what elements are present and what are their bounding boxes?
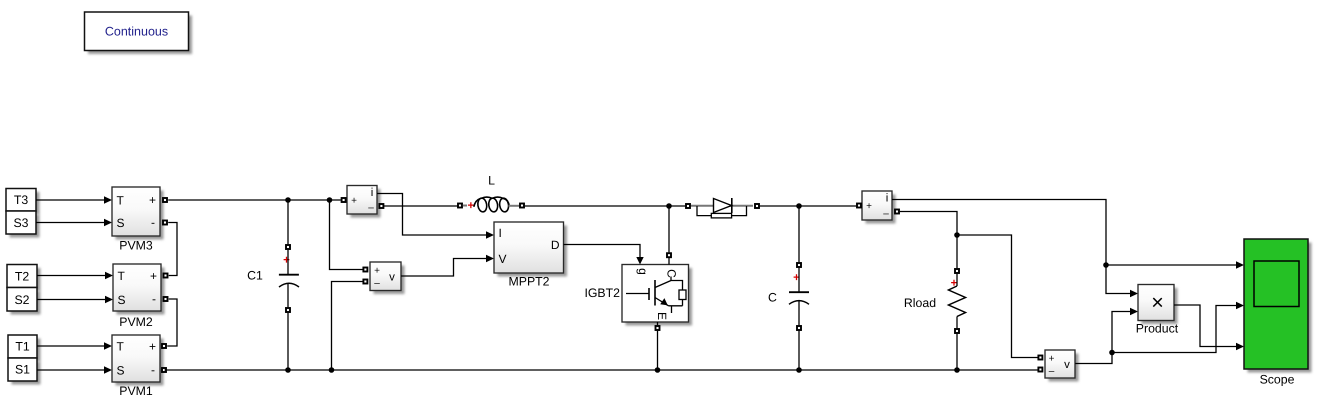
wire MPPT2 D output to IGBT gate <box>564 245 644 265</box>
PV module subsystem PVM3 <box>112 187 164 253</box>
Product block <box>1136 285 1179 336</box>
PVM2 + port <box>164 274 168 278</box>
svg-text:PVM3: PVM3 <box>119 239 153 253</box>
wire T3 to PVM3.T <box>36 196 112 203</box>
node junction C top <box>796 203 802 209</box>
wire junction to v2 plus <box>957 235 1038 358</box>
PV module subsystem PVM1 <box>112 335 164 398</box>
svg-text:D: D <box>551 238 560 252</box>
svg-text:Product: Product <box>1136 322 1179 336</box>
svg-text:C: C <box>768 291 777 305</box>
wire PVM3 minus to PVM2 plus <box>168 223 177 276</box>
PV module subsystem PVM2 <box>113 264 165 329</box>
svg-text:+: + <box>374 266 380 277</box>
wire PVM2 minus to PVM1 plus <box>167 299 177 346</box>
node junction C1 top <box>285 197 291 203</box>
svg-text:Rload: Rload <box>904 296 936 310</box>
PVM3 + port <box>163 198 167 202</box>
node junction load tap <box>954 232 960 238</box>
constant block S2 <box>7 288 41 315</box>
wire Product output to Scope input 3 <box>1174 305 1244 350</box>
MPPT subsystem MPPT2 <box>494 222 567 289</box>
voltage measurement v2 <box>1045 350 1079 382</box>
wire IGBT E to bottom rail <box>657 331 659 370</box>
current measurement i2 <box>862 191 896 224</box>
PVM1 - port <box>162 368 166 372</box>
wire i2 minus to Rload and v2 <box>900 212 957 269</box>
svg-text:–: – <box>374 278 380 289</box>
i2 + port <box>857 204 861 208</box>
node junction IGBT E on rail <box>655 367 661 373</box>
svg-text:PVM2: PVM2 <box>119 315 153 329</box>
diode D1 <box>686 198 759 218</box>
node junction Rload bottom <box>954 367 960 373</box>
wire i1 minus to inductor L <box>384 205 458 207</box>
svg-text:i: i <box>371 187 374 199</box>
wire down to C <box>798 206 800 262</box>
wire S1 to PVM1.S <box>37 366 112 373</box>
constant block T3 <box>6 189 40 215</box>
node junction C1 bottom <box>285 367 291 373</box>
wire L to diode with IGBT collector tap <box>525 205 685 207</box>
svg-text:T1: T1 <box>15 340 30 354</box>
resistor Rload <box>904 269 966 333</box>
capacitor C1 <box>247 245 299 312</box>
svg-text:S3: S3 <box>13 216 28 230</box>
wire v1 signal to MPPT2 V input <box>401 255 494 276</box>
svg-text:T3: T3 <box>14 193 29 207</box>
wire v1 minus to bottom rail <box>332 282 363 371</box>
svg-text:S: S <box>117 216 125 230</box>
wire i signal to Product input 1 <box>1106 265 1138 297</box>
svg-text:–: – <box>1049 366 1055 377</box>
svg-text:L: L <box>488 173 495 187</box>
svg-text:–: – <box>368 202 374 213</box>
wire diode to i2 with capacitor C tap <box>760 205 856 207</box>
node junction C bottom <box>796 367 802 373</box>
IGBT E port <box>656 326 660 330</box>
v2 - port <box>1038 368 1042 372</box>
node junction i signal <box>1103 262 1109 268</box>
svg-text:+: + <box>866 201 872 212</box>
svg-text:-: - <box>151 363 155 377</box>
node junction v signal <box>1109 350 1115 356</box>
wire i1 signal to MPPT2 I input <box>377 194 494 239</box>
wire C1 bottom to rail <box>287 313 289 370</box>
svg-text:C1: C1 <box>247 269 263 283</box>
svg-text:×: × <box>1151 290 1164 314</box>
svg-text:+: + <box>283 255 290 267</box>
svg-text:T: T <box>118 269 126 283</box>
svg-text:g: g <box>636 268 650 275</box>
svg-text:v: v <box>389 271 395 283</box>
IGBT2 block <box>584 265 692 326</box>
svg-text:S: S <box>117 364 125 378</box>
i1 - port <box>379 204 383 208</box>
Scope block <box>1244 239 1312 387</box>
wire T2 to PVM2.T <box>37 272 113 279</box>
wire v signal to Scope input 2 <box>1112 302 1244 353</box>
v1 + port <box>363 268 367 272</box>
svg-text:T2: T2 <box>15 270 30 284</box>
wire top positive rail PVM3 plus to i1 <box>168 199 341 201</box>
powergui block Continuous <box>85 12 193 54</box>
svg-text:PVM1: PVM1 <box>119 384 153 398</box>
PVM2 - port <box>164 297 168 301</box>
wire T1 to PVM1.T <box>37 342 112 349</box>
current measurement i1 <box>347 186 381 218</box>
svg-text:+: + <box>150 269 157 283</box>
node junction IGBT collector <box>666 203 672 209</box>
svg-text:-: - <box>151 216 155 230</box>
PVM3 - port <box>163 221 167 225</box>
wire bottom negative rail <box>165 369 1038 371</box>
constant block S3 <box>6 211 40 238</box>
voltage measurement v1 <box>370 262 405 294</box>
svg-text:+: + <box>149 193 156 207</box>
svg-text:i: i <box>886 192 889 204</box>
node junction v1 plus <box>327 197 333 203</box>
wire i signal to Scope input 1 <box>1106 261 1244 268</box>
wire S3 to PVM3.S <box>36 219 112 226</box>
wire i2 signal to scope and product <box>892 200 1106 266</box>
wire drop to C1 <box>287 200 289 244</box>
v2 + port <box>1038 356 1042 360</box>
node junction v1 minus on bottom rail <box>329 367 335 373</box>
capacitor C <box>768 263 809 330</box>
inductor L <box>458 173 524 212</box>
svg-text:V: V <box>499 252 507 266</box>
wire down to IGBT C port <box>668 206 670 252</box>
wire v2 signal to Product input 2 <box>1075 308 1138 364</box>
svg-text:+: + <box>1049 354 1055 365</box>
svg-text:Continuous: Continuous <box>105 25 168 39</box>
svg-text:S1: S1 <box>15 363 30 377</box>
IGBT C port <box>667 253 671 257</box>
i2 - port <box>895 210 899 214</box>
PVM1 + port <box>162 344 166 348</box>
svg-text:S2: S2 <box>14 293 29 307</box>
svg-text:MPPT2: MPPT2 <box>509 275 550 289</box>
svg-text:S: S <box>118 293 126 307</box>
svg-text:Scope: Scope <box>1260 373 1295 387</box>
wire C bottom to rail <box>798 331 800 370</box>
i1 + port <box>342 198 346 202</box>
wire drop to v1 plus <box>330 200 363 270</box>
constant block S1 <box>8 358 41 385</box>
wire Rload bottom to rail <box>956 334 958 370</box>
constant block T2 <box>7 265 41 292</box>
wire S2 to PVM2.S <box>37 296 113 303</box>
svg-text:T: T <box>117 339 125 353</box>
svg-text:–: – <box>883 208 889 219</box>
svg-text:+: + <box>351 195 357 206</box>
svg-text:v: v <box>1064 359 1070 371</box>
svg-text:IGBT2: IGBT2 <box>584 286 620 300</box>
svg-text:+: + <box>149 339 156 353</box>
svg-text:T: T <box>117 193 125 207</box>
svg-text:I: I <box>499 226 502 240</box>
v1 - port <box>363 280 367 284</box>
constant block T1 <box>8 335 41 362</box>
svg-text:-: - <box>152 292 156 306</box>
svg-text:E: E <box>655 312 669 320</box>
